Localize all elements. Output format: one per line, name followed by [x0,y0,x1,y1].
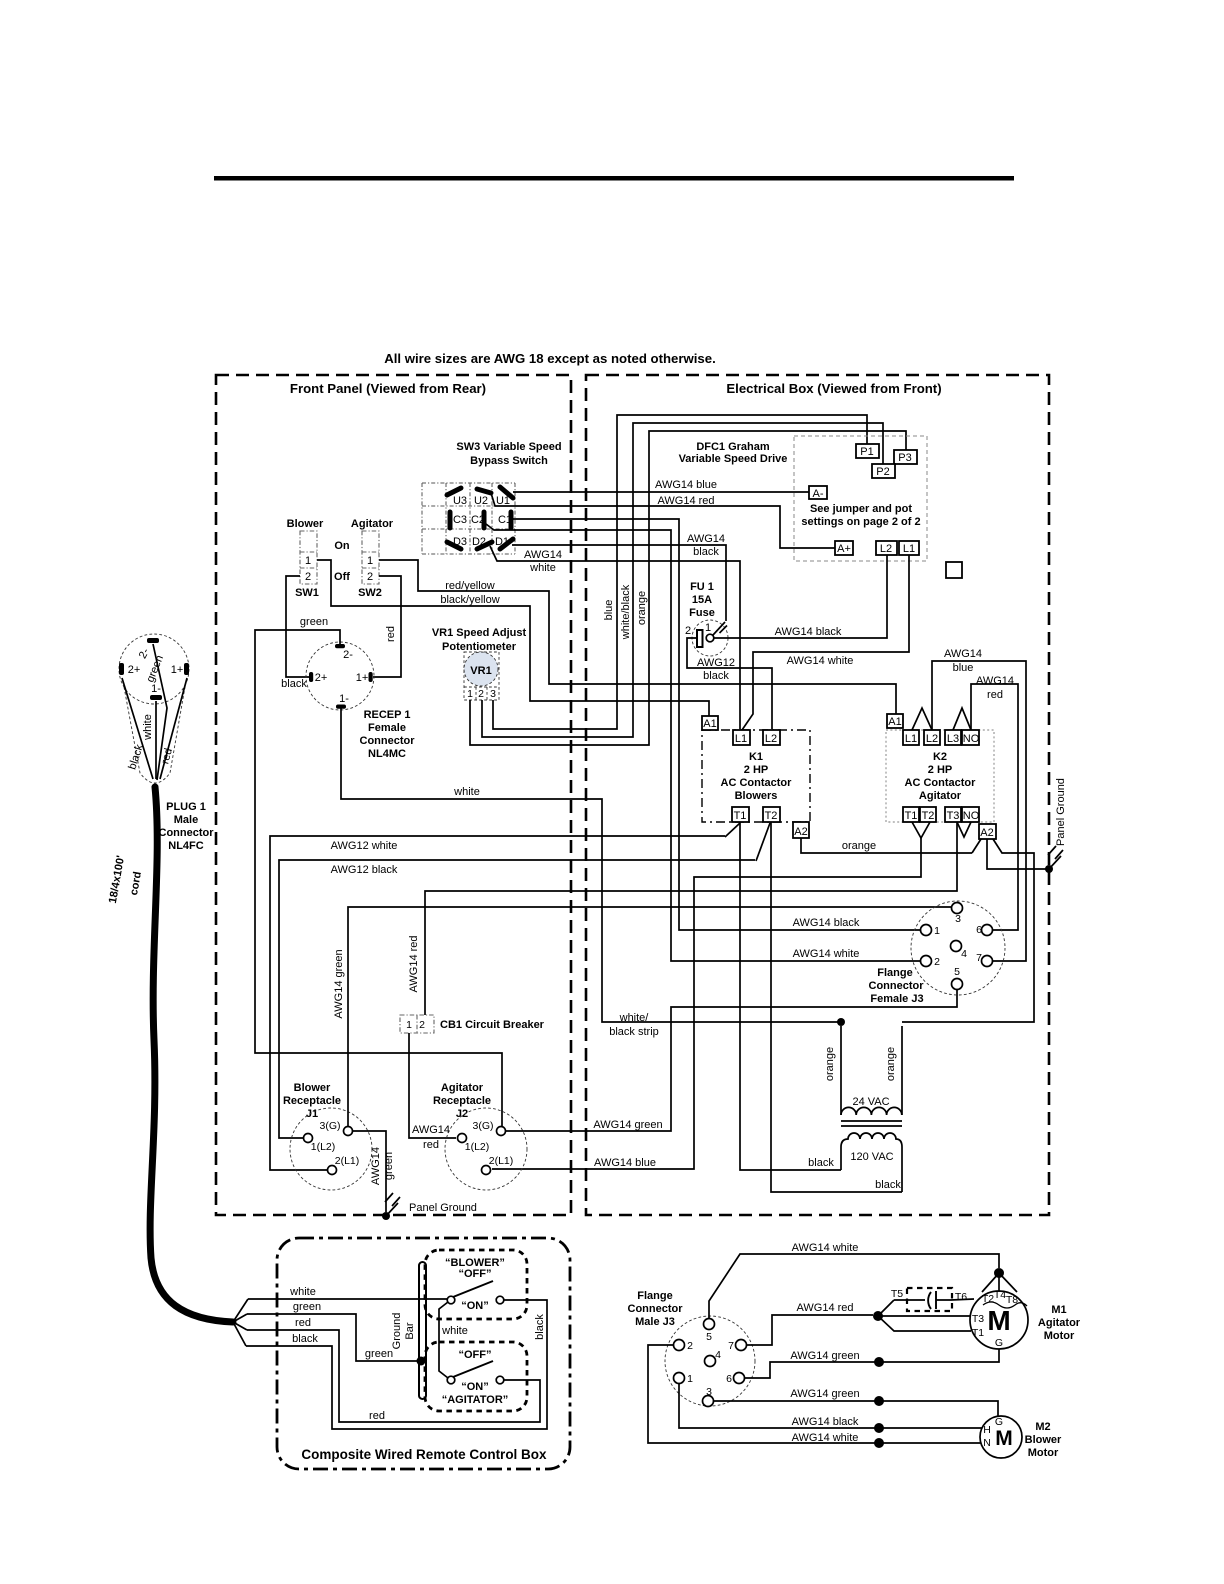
svg-text:L1: L1 [735,733,747,745]
K2 terminal T2 [920,807,936,822]
svg-text:T2: T2 [765,810,778,822]
svg-text:AWG14 white: AWG14 white [793,948,860,960]
svg-text:2: 2 [478,688,484,700]
svg-text:G: G [995,1337,1003,1349]
svg-text:P1: P1 [860,446,873,458]
K1 terminal A2 [793,822,809,838]
svg-text:AC Contactor: AC Contactor [721,777,793,789]
svg-text:VR1 Speed Adjust: VR1 Speed Adjust [432,627,527,639]
svg-text:SW3 Variable Speed: SW3 Variable Speed [456,441,561,453]
svg-text:Potentiometer: Potentiometer [442,641,517,653]
svg-text:L1: L1 [903,543,915,555]
svg-text:Blower: Blower [294,1082,331,1094]
K2 terminal A1 [887,714,903,728]
wire: cord black to blower switch [246,1300,547,1429]
svg-text:green: green [365,1348,393,1360]
svg-text:DFC1 Graham: DFC1 Graham [696,441,770,453]
svg-text:green: green [300,616,328,628]
wire: AWG12 black J1 to K1 T2 [279,860,755,1138]
svg-text:Blower: Blower [1025,1434,1062,1446]
breaker CB1 [400,1015,545,1033]
receptacle J1 [283,1082,372,1190]
svg-text:FU 1: FU 1 [690,581,714,593]
cord fan-out [233,1299,248,1346]
junction: white/black strip to transformer [837,1018,845,1026]
wire: K2 L2 AWG14 blue to J3 pin7 [932,648,1026,961]
K2 terminal L3 [945,730,961,745]
DFC1 terminal P2 [872,464,895,478]
svg-text:2(L1): 2(L1) [489,1155,514,1167]
svg-text:M: M [995,1427,1013,1450]
PLUG1 pins [119,638,189,700]
agitator switch contacts [447,1361,504,1384]
wire: FU1 pin1 AWG14 black to DFC1 L2 [714,555,887,638]
K1 terminal L2 [763,730,780,745]
wire: J3 pin5 AWG14 white to M1 [709,1242,999,1318]
SW3 contact bars [447,487,513,549]
svg-text:J1: J1 [306,1108,318,1120]
K1 terminal A1 [702,716,718,730]
svg-text:T2: T2 [922,810,935,822]
svg-text:AWG14 green: AWG14 green [790,1388,859,1400]
svg-text:3(G): 3(G) [320,1120,341,1132]
svg-text:black/yellow: black/yellow [440,594,499,606]
svg-text:black: black [292,1333,318,1345]
wire: CB1 AWG14 red to J2 1(L2) [409,1033,456,1151]
svg-text:Panel Ground: Panel Ground [1055,778,1067,846]
front panel enclosure [216,375,571,1215]
svg-text:AWG14: AWG14 [412,1124,450,1136]
wire: RECEP1 2- green to J2 3(G) [255,616,502,1126]
wire: cord white to switches [248,1286,468,1378]
K2 terminal T1 [903,807,919,822]
M1 label [1038,1304,1081,1342]
svg-text:AWG12 black: AWG12 black [331,864,398,876]
svg-text:Agitator: Agitator [441,1082,484,1094]
svg-text:A-: A- [813,488,824,500]
K2 terminal L1 [903,730,919,745]
panel ground right [1045,778,1067,873]
svg-text:4: 4 [715,1349,721,1361]
svg-text:Flange: Flange [637,1290,672,1302]
svg-text:2 HP: 2 HP [928,764,952,776]
drive DFC1 [679,436,927,561]
svg-text:black: black [693,546,719,558]
svg-text:white: white [142,714,154,741]
svg-text:CB1 Circuit Breaker: CB1 Circuit Breaker [440,1019,545,1031]
svg-text:AWG14: AWG14 [687,533,725,545]
svg-text:1-: 1- [151,683,161,695]
K2 terminal A2 [979,824,996,839]
wire: J3 pin2 AWG14 white to M2 N [648,1345,981,1448]
svg-text:Receptacle: Receptacle [433,1095,491,1107]
svg-text:black: black [808,1157,834,1169]
svg-text:U2: U2 [474,495,488,507]
wire: VR1 pin1 orange to DFC1 P3 [470,431,906,745]
wire: SW3 U2 to DFC1 A+ (AWG14 red) [491,493,835,548]
svg-text:P3: P3 [898,452,911,464]
svg-text:red: red [423,1139,439,1151]
svg-text:T3: T3 [972,1313,984,1325]
svg-text:settings on page 2 of 2: settings on page 2 of 2 [801,516,920,528]
svg-text:“OFF”: “OFF” [459,1268,492,1280]
svg-text:A+: A+ [837,543,851,555]
svg-text:2: 2 [687,1340,693,1352]
capacitor T5/T6 [891,1288,974,1311]
K2 jumper T3-NO [957,822,971,837]
wire: J3 pin3 AWG14 green to M2 G [713,1388,998,1416]
wire: AWG12 white J1 to K1 T1 [270,836,725,1170]
wire: J3 pin1 AWG14 black to M2 H [679,1384,982,1433]
svg-text:AWG14 green: AWG14 green [790,1350,859,1362]
svg-text:SW2: SW2 [358,587,382,599]
svg-text:1+: 1+ [356,672,369,684]
svg-text:Receptacle: Receptacle [283,1095,341,1107]
wire: K2 A2 to orange [972,839,981,853]
svg-text:3: 3 [490,688,496,700]
svg-text:NL4FC: NL4FC [168,840,204,852]
svg-text:“OFF”: “OFF” [459,1349,492,1361]
wire: K2 A2 to panel ground [987,839,1046,869]
svg-text:24 VAC: 24 VAC [852,1096,889,1108]
svg-text:AWG14 red: AWG14 red [408,935,420,992]
note: wire size note [384,351,716,366]
svg-text:1: 1 [934,925,940,937]
svg-text:orange: orange [885,1047,897,1081]
wire: K1 T1 to transformer 120VAC [740,822,841,1170]
svg-text:black: black [534,1314,546,1340]
svg-text:1: 1 [305,555,311,567]
svg-text:T5: T5 [891,1288,903,1300]
wire: SW3 D1 to fuse FU1 [512,533,726,621]
svg-text:1+: 1+ [171,664,184,676]
svg-text:T4: T4 [994,1289,1006,1301]
svg-text:AC Contactor: AC Contactor [905,777,977,789]
contactor K1 [702,730,810,822]
svg-text:M1: M1 [1051,1304,1066,1316]
svg-text:AWG14 white: AWG14 white [787,655,854,667]
svg-text:white: white [453,786,480,798]
svg-text:3: 3 [706,1386,712,1398]
svg-text:7: 7 [976,952,982,964]
svg-text:On: On [334,540,350,552]
wire: RECEP1 1- white to transformer junction [341,708,838,1038]
svg-text:Composite Wired Remote Control: Composite Wired Remote Control Box [301,1447,547,1462]
spare terminal box [946,562,962,578]
wire: cord red to agitator switch [247,1317,540,1422]
svg-text:T6: T6 [955,1291,967,1303]
svg-text:4: 4 [961,948,967,960]
wire: SW1-2 black to RECEP1 2+ [281,576,309,690]
switch SW1 [287,518,324,599]
wire: J1 3(G) to panel ground [353,1131,395,1212]
PLUG1 internal wires [122,644,187,780]
receptacle J2 [433,1082,527,1190]
svg-text:white/black: white/black [620,584,632,640]
svg-text:6: 6 [726,1373,732,1385]
svg-text:G: G [995,1416,1003,1428]
svg-text:NO: NO [963,733,980,745]
svg-text:Bar: Bar [404,1322,416,1339]
K2 terminal NO bottom [962,807,980,822]
svg-text:M: M [987,1305,1010,1336]
svg-text:AWG14: AWG14 [524,549,562,561]
svg-text:SW1: SW1 [295,587,319,599]
connector PLUG1 outline [119,634,189,783]
svg-text:Agitator: Agitator [919,790,962,802]
svg-text:1: 1 [406,1019,412,1031]
DFC1 terminal A+ [835,541,853,555]
svg-text:2: 2 [305,571,311,583]
svg-text:Connector: Connector [869,980,925,992]
contactor K2 [886,730,994,822]
svg-text:U3: U3 [453,495,467,507]
svg-text:N: N [983,1437,991,1449]
wire: SW3 C1 to J3 pin1 (AWG14 black) [513,519,920,930]
svg-text:black: black [281,678,307,690]
M2 label [1025,1421,1062,1459]
svg-text:T1: T1 [734,810,747,822]
svg-text:Motor: Motor [1028,1447,1059,1459]
wire: J1 3(G) AWG14 green to J3 pin3 [333,907,952,1126]
wire: SW3 C2 to J3 pin2 (AWG14 white) [486,524,920,961]
cord: 18/4 cable [150,787,233,1322]
junction: M1 white splice [982,1268,1017,1292]
svg-text:red: red [295,1317,311,1329]
svg-text:white: white [441,1325,468,1337]
fuse FU1 [685,620,728,656]
On / Off labels [334,540,350,583]
svg-text:3(G): 3(G) [473,1120,494,1132]
switch SW3 label [456,441,561,467]
svg-text:green: green [383,1152,395,1180]
svg-text:Fuse: Fuse [689,607,715,619]
wire: K1 A2 orange to K2 A2 [801,838,972,853]
svg-text:red/yellow: red/yellow [445,580,495,592]
svg-text:1: 1 [367,555,373,567]
wire: K1 T2 to transformer 120VAC [771,822,902,1192]
svg-text:green: green [293,1301,321,1313]
svg-text:AWG14 black: AWG14 black [793,917,860,929]
svg-text:1: 1 [467,688,473,700]
motor M1 [970,1289,1028,1349]
svg-text:2: 2 [934,956,940,968]
cord label [107,854,144,904]
svg-text:AWG14 green: AWG14 green [333,949,345,1018]
ground bar [391,1262,426,1399]
svg-text:A1: A1 [888,716,901,728]
svg-text:Front Panel (Viewed from Rear): Front Panel (Viewed from Rear) [290,381,486,396]
DFC1 terminal L2 [876,541,897,555]
connector J3 female [869,901,1006,1005]
svg-text:white: white [529,562,556,574]
wire: VR1 pin3 blue to DFC1 P1 [493,415,867,729]
wire: K1 T1 to AWG12 white [725,823,740,837]
DFC1 terminal P1 [856,444,879,458]
svg-text:AWG14 black: AWG14 black [775,626,842,638]
svg-text:Connector: Connector [159,827,215,839]
wire: cord green to ground bar [247,1301,419,1361]
svg-text:black: black [703,670,729,682]
svg-text:red: red [385,626,397,642]
svg-text:“ON”: “ON” [461,1381,489,1393]
svg-text:black strip: black strip [609,1026,659,1038]
wire: VR1 pin2 white/black to DFC1 P2 [482,423,883,737]
wire: K2 T1/T2 jumper AWG14 blue to J2 2(L1) [492,838,921,1169]
blower switch group [425,1250,527,1319]
svg-text:1: 1 [705,622,711,634]
svg-text:white: white [289,1286,316,1298]
svg-text:blue: blue [953,662,974,674]
motor M2 [980,1416,1022,1458]
svg-text:1(L2): 1(L2) [311,1141,336,1153]
svg-text:A2: A2 [794,826,807,838]
transformer T1 24VAC/120VAC [808,1026,902,1192]
svg-text:blue: blue [603,600,615,621]
svg-text:6: 6 [976,924,982,936]
svg-text:AWG14 blue: AWG14 blue [594,1157,656,1169]
svg-text:2-: 2- [343,649,353,661]
svg-text:1: 1 [687,1373,693,1385]
svg-text:K1: K1 [749,751,763,763]
bus wire labels [603,584,648,640]
blower switch contacts [447,1281,504,1304]
svg-text:orange: orange [842,840,876,852]
svg-text:AWG14 blue: AWG14 blue [655,479,717,491]
K2 jumper L3-NO [953,708,971,730]
svg-text:L3: L3 [947,733,959,745]
wire: J2 3(G) AWG14 green to J3 pin5 [506,989,957,1131]
svg-text:AWG14 red: AWG14 red [796,1302,853,1314]
wire: SW2-2 red to RECEP1 1+ [373,576,401,677]
svg-text:Male: Male [174,814,198,826]
svg-text:3: 3 [955,913,961,925]
switch SW3 terminal grid [422,483,515,554]
svg-text:2+: 2+ [128,664,141,676]
DFC1 terminal L1 [899,541,919,555]
K2 jumper L1-L2 [912,708,932,730]
svg-text:Motor: Motor [1044,1330,1075,1342]
K1 terminal L1 [733,730,750,745]
svg-text:AWG14: AWG14 [370,1147,382,1185]
svg-text:K2: K2 [933,751,947,763]
svg-text:2: 2 [367,571,373,583]
svg-text:L1: L1 [905,733,917,745]
fuse FU1 label [689,581,715,619]
svg-text:PLUG 1: PLUG 1 [166,801,206,813]
K2 terminal L2 [924,730,940,745]
svg-text:See jumper and pot: See jumper and pot [810,503,912,515]
svg-text:orange: orange [824,1047,836,1081]
svg-text:AWG14: AWG14 [944,648,982,660]
svg-text:AWG12 white: AWG12 white [331,840,398,852]
svg-text:C3: C3 [453,514,467,526]
svg-text:VR1: VR1 [470,665,491,677]
K1 terminal T1 [732,807,749,822]
wire: SW2-1 red/yellow to K2 A1 [379,560,896,714]
svg-text:7: 7 [728,1340,734,1352]
svg-text:L2: L2 [880,543,892,555]
svg-text:Electrical Box (Viewed from Fr: Electrical Box (Viewed from Front) [726,381,941,396]
svg-text:RECEP 1: RECEP 1 [364,709,411,721]
svg-text:“ON”: “ON” [461,1300,489,1312]
svg-text:L2: L2 [765,733,777,745]
svg-text:T1: T1 [905,810,918,822]
svg-text:NL4MC: NL4MC [368,748,406,760]
svg-text:5: 5 [954,966,960,978]
svg-text:All wire sizes are AWG 18 exce: All wire sizes are AWG 18 except as note… [384,351,716,366]
PLUG1 labels [159,801,215,852]
svg-text:1(L2): 1(L2) [465,1141,490,1153]
potentiometer VR1 label [432,627,527,653]
K1 terminal T2 [763,807,780,822]
K2 terminal NO top [962,730,980,745]
svg-text:T2: T2 [982,1293,994,1305]
wire: DFC1 L1 AWG14 white to K1 L1 [742,555,909,730]
svg-text:AWG14 red: AWG14 red [657,495,714,507]
svg-text:Connector: Connector [628,1303,684,1315]
wire: K2 NO AWG14 red to J3 pin6 [971,675,1018,930]
wire: SW3 D2 to K1 L1 (AWG14 white) [490,546,740,729]
svg-text:AWG14: AWG14 [976,675,1014,687]
svg-text:Female J3: Female J3 [870,993,923,1005]
svg-text:Male J3: Male J3 [635,1316,675,1328]
potentiometer VR1 [464,652,499,700]
panel ground left [382,1193,477,1220]
svg-text:AWG14 white: AWG14 white [792,1432,859,1444]
svg-text:Connector: Connector [360,735,416,747]
svg-text:2 HP: 2 HP [744,764,768,776]
switch SW2 [351,518,394,599]
svg-text:“AGITATOR”: “AGITATOR” [442,1394,509,1406]
svg-text:2: 2 [419,1019,425,1031]
wire: J3 pin6 AWG14 green to M1 G [745,1349,999,1378]
svg-text:L2: L2 [926,733,938,745]
svg-text:5: 5 [706,1331,712,1343]
wire: FU1 pin2 AWG12 black to K1 L2 [687,638,772,729]
svg-text:AWG12: AWG12 [697,657,735,669]
svg-text:Blowers: Blowers [735,790,778,802]
agitator switch group [425,1342,527,1411]
remote box enclosure [277,1238,570,1469]
connector RECEP1 [306,642,415,760]
svg-text:M2: M2 [1035,1421,1050,1433]
wire: J3 pin7 AWG14 red to M1 [746,1302,873,1345]
DFC1 terminal P3 [894,450,917,464]
svg-text:T3: T3 [947,810,960,822]
wire: K1 T2 to AWG12 black [756,823,770,861]
svg-text:Ground: Ground [391,1313,403,1350]
svg-text:A1: A1 [703,718,716,730]
svg-text:NO: NO [963,810,980,822]
DFC1 terminal A- [809,486,827,500]
svg-text:Bypass Switch: Bypass Switch [470,455,548,467]
svg-text:orange: orange [636,591,648,625]
svg-text:AWG14 green: AWG14 green [593,1119,662,1131]
svg-text:1-: 1- [339,693,349,705]
svg-text:P2: P2 [876,466,889,478]
svg-text:Female: Female [368,722,406,734]
svg-text:red: red [369,1410,385,1422]
svg-text:2+: 2+ [315,672,328,684]
K2 jumper T1-T2 [912,822,930,838]
svg-text:H: H [983,1424,991,1436]
svg-text:red: red [987,689,1003,701]
svg-text:T1: T1 [972,1327,984,1339]
junction: M1 red splice [873,1300,971,1331]
svg-text:2: 2 [685,625,691,637]
wire: K2 T3 AWG14 red to CB1 [408,822,957,1015]
